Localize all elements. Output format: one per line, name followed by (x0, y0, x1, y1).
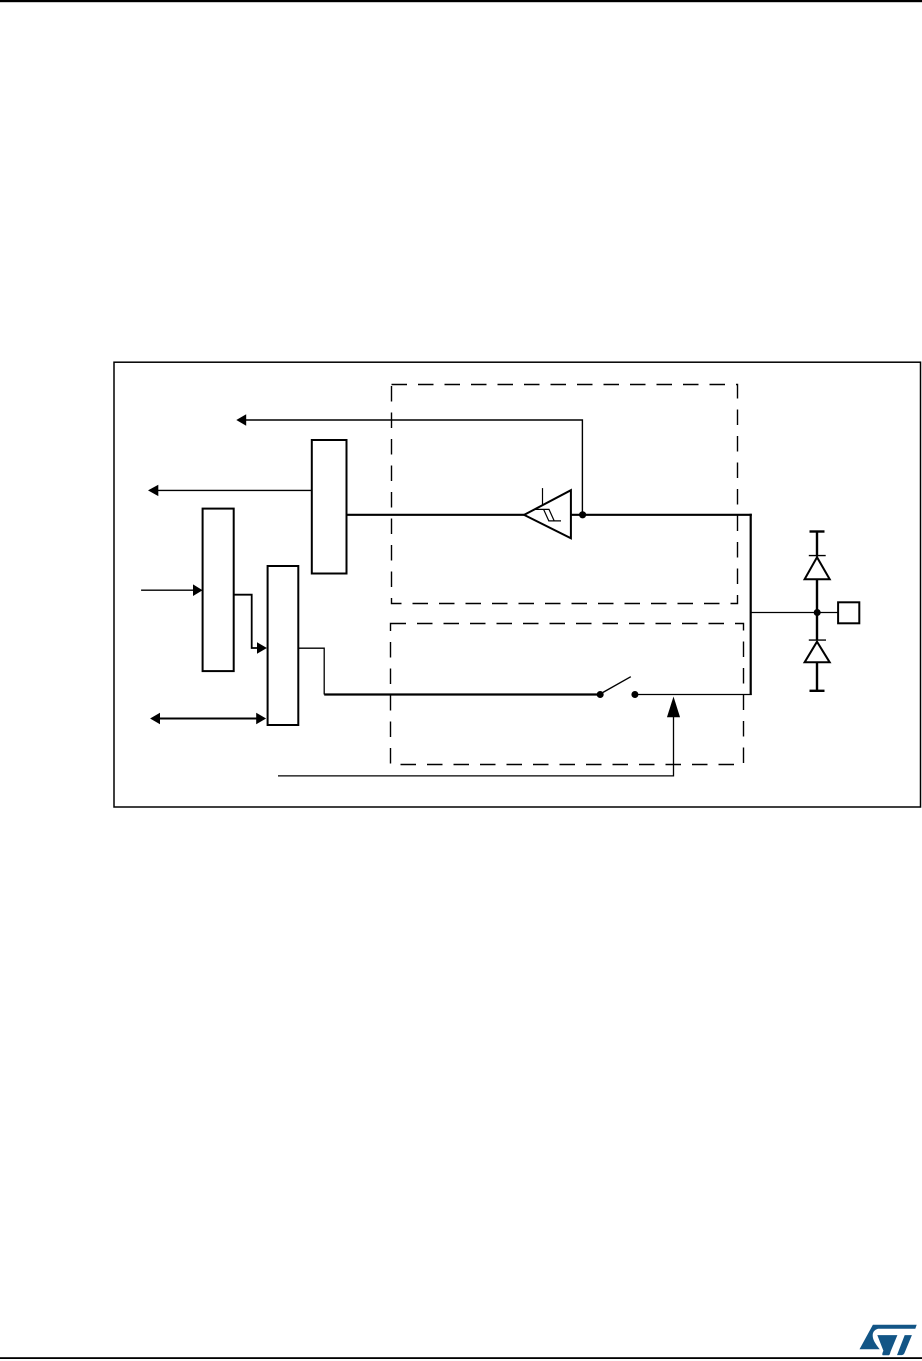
register block A (input data register) (312, 440, 347, 574)
ST logo T stem (897, 1335, 912, 1355)
protection diode D1 anode lead (816, 579, 818, 612)
switch S1 contact dot right (631, 691, 638, 698)
wire: read/write double-headed line (159, 718, 257, 720)
wire: write line into block B (141, 589, 193, 591)
register block B (write register) (203, 509, 234, 671)
Schmitt hysteresis symbol (536, 509, 562, 521)
input driver dashed box (392, 385, 738, 604)
arrowhead: top data line (left) (236, 414, 246, 425)
wire: switch to right vertical bus (635, 694, 752, 696)
VDD rail bar (810, 530, 825, 532)
ST logo S lower stroke (877, 1335, 897, 1355)
node dot on pad wire (814, 609, 821, 616)
arrowhead: read line (left) (148, 485, 158, 496)
Schmitt trigger callout leader line (542, 488, 544, 505)
right vertical bus (thick) (750, 514, 752, 695)
main input wire right segment (thick) (571, 514, 752, 516)
protection diode D2 anode lead to VSS (816, 662, 818, 691)
pull control line (278, 717, 674, 776)
arrowhead: into block C (257, 642, 267, 653)
connector block B to block C (234, 595, 258, 648)
arrowhead: pull control (up) (667, 697, 680, 718)
main input wire left segment (thick) (347, 514, 527, 516)
ST logo wing (S top bar and left stroke) (860, 1325, 917, 1350)
switch S1 contact dot left (597, 691, 604, 698)
wire: read line from block A (158, 489, 312, 491)
arrowhead: write line (right) (193, 584, 203, 596)
protection diode D2 lead from node (816, 613, 818, 641)
protection diode D1 cathode bar (809, 555, 826, 557)
protection diode D1 triangle (805, 557, 830, 579)
switch S1 lever (603, 677, 631, 693)
pull-up/pull-down dashed box (391, 624, 744, 765)
wire: block C to pull path (298, 648, 324, 694)
protection diode D2 cathode bar (809, 639, 826, 641)
wire: top data line (246, 420, 582, 515)
protection diode D2 triangle (805, 642, 830, 663)
VSS rail bar (810, 690, 825, 692)
node dot at Schmitt input junction (579, 511, 586, 518)
arrowhead: read/write left (150, 713, 160, 724)
figure frame (114, 362, 921, 807)
register block C (output data register) (268, 566, 299, 725)
page top rule (0, 0, 922, 2)
pull wire to switch (thick) (324, 693, 600, 695)
Schmitt trigger U1 (524, 490, 571, 538)
arrowhead: read/write right (256, 713, 266, 724)
page bottom rule (0, 1357, 922, 1359)
protection diode D1 lead to VDD (816, 532, 818, 557)
wire: bus to I/O pad (751, 612, 838, 614)
I/O pad square (838, 602, 859, 623)
